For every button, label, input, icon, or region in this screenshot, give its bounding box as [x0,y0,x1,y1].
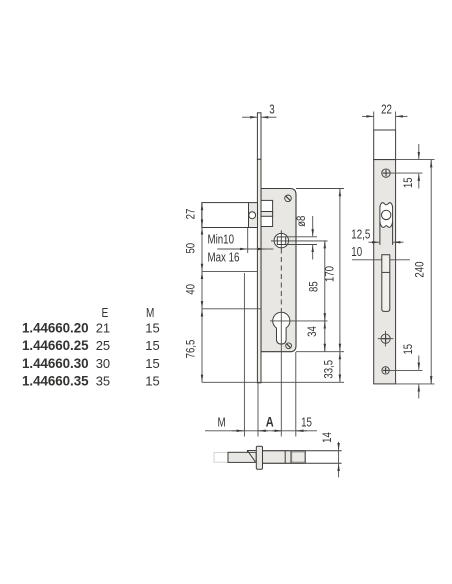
chain extension 50/40 boundary [202,270,257,272]
plate top screw [382,169,390,177]
follower hub circle [274,233,288,247]
extension: top screw center [386,172,423,174]
follower horizontal centerline [271,240,328,242]
dim 33,5 [322,352,340,383]
latch bolt tip block [228,452,256,462]
svg-text:E: E [102,307,109,320]
svg-text:33,5: 33,5 [322,360,335,379]
svg-text:10: 10 [351,246,362,259]
svg-text:Max 16: Max 16 [208,251,240,264]
extension: plate bottom line to 240 [396,383,435,385]
label 10 with leader line [351,246,410,260]
top screw S1 [285,195,292,202]
svg-text:76,5: 76,5 [184,340,197,359]
lock body case [261,189,296,352]
dim o8 arrows [295,216,313,260]
svg-text:ø8: ø8 [295,216,308,227]
dim 15 bottom right [402,344,419,399]
dim 240 [414,160,432,384]
svg-text:27: 27 [184,209,197,220]
svg-text:170: 170 [323,266,336,282]
svg-text:15: 15 [301,416,312,429]
lock body section bar (white right part, open right end) [263,451,342,463]
svg-text:34: 34 [306,326,319,337]
faceplate section [256,446,262,469]
diameter 8 leader lines [285,236,317,238]
body section gray part [263,451,306,463]
extension: bottom screw center [386,369,423,371]
svg-text:40: 40 [184,284,197,295]
latch bolt head (gray) [249,203,258,228]
dim 85 [308,241,325,321]
svg-text:15: 15 [402,177,415,188]
bottom screw S2 [286,343,292,349]
long bottom extension (faceplate bottom) [202,381,344,383]
svg-text:85: 85 [308,281,321,292]
svg-text:15: 15 [402,344,415,355]
dim 3 (faceplate thickness) [242,103,277,117]
svg-text:35: 35 [96,374,110,389]
svg-text:12,5: 12,5 [351,228,370,241]
svg-text:25: 25 [96,338,110,353]
side plate upper break section (white) [374,130,396,160]
cylinder axis solid centerline down to bottom dims [280,311,282,437]
svg-text:1.44660.30: 1.44660.30 [22,356,89,371]
dim 12,5 [351,228,403,242]
svg-text:22: 22 [381,103,392,116]
svg-text:50: 50 [184,243,197,254]
extension: body right edge line [295,352,297,437]
latch rear edge extension line [247,227,249,253]
svg-text:1.44660.35: 1.44660.35 [22,374,89,389]
dashed centerline between follower and cylinder [280,249,282,312]
svg-text:Min10: Min10 [208,234,235,247]
extension: plate top break line to 240 [396,159,435,161]
svg-text:15: 15 [145,320,159,335]
follower vertical centerline [280,230,282,248]
svg-text:14: 14 [321,432,334,443]
latch bolt tip ghost (retracted, light outline) [214,453,228,463]
svg-text:15: 15 [145,374,159,389]
plate bottom screw [382,367,389,374]
dim line M A 15 [205,414,317,431]
section divider lines [284,451,286,463]
Min10 / Max 16 labels with arrow [208,234,274,265]
svg-text:A: A [266,414,274,429]
svg-text:240: 240 [414,262,427,278]
side plate main body [374,160,396,384]
chain extension 40/76,5 boundary [202,308,261,310]
dim 15 top right [402,144,419,189]
dim 22 (side plate width) [362,103,408,130]
plate lower slot [382,255,390,312]
svg-text:1.44660.20: 1.44660.20 [22,320,89,335]
plate latch window [380,203,393,245]
dim 34 [306,321,325,352]
dim 14 [321,432,338,477]
svg-text:15: 15 [145,338,159,353]
extension: body bottom [296,351,344,353]
follower square 8mm [277,237,285,245]
faceplate front view [257,159,261,382]
svg-text:M: M [217,416,225,429]
svg-text:21: 21 [96,320,110,335]
plate center-marked screw [378,331,394,347]
latch bolt box (extended, white) [202,203,249,228]
svg-text:1.44660.25: 1.44660.25 [22,338,89,353]
extension: latch tip line [243,273,245,437]
dim 170 [323,189,340,352]
svg-text:3: 3 [269,103,274,116]
svg-text:30: 30 [96,356,110,371]
latch roller ellipse [249,212,256,219]
latch bevel diagonal [247,451,255,462]
latch cavity notch in body [261,200,273,226]
svg-text:15: 15 [145,356,159,371]
chain extension 27 top [202,202,257,204]
extension: body top to 170 [296,188,344,190]
latch bevel top edge [247,451,256,453]
extension: faceplate line [257,383,259,437]
svg-text:M: M [146,307,154,320]
latch bar band [261,212,273,217]
faceplate upper break strip (white) [257,113,261,160]
cylinder horizontal centerline [270,320,328,322]
section inner piece [292,452,305,462]
euro cylinder hole [273,312,290,344]
left dim chain line [201,203,203,383]
